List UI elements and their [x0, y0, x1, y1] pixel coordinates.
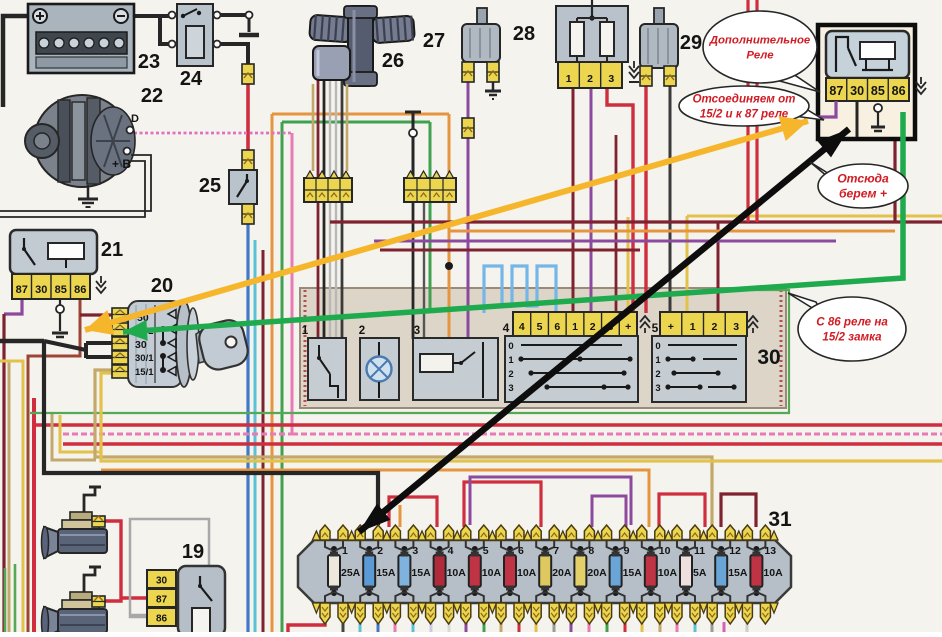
svg-text:86: 86 [892, 84, 906, 98]
fuse F10 10A [645, 555, 657, 587]
fuse F8 20A [574, 555, 586, 587]
switch table 5 in block 30 [652, 336, 746, 402]
svg-text:12: 12 [729, 545, 741, 557]
node junction on orange [445, 262, 453, 270]
sensor 29 [654, 8, 664, 24]
svg-text:10A: 10A [517, 567, 537, 579]
svg-text:15/2 замка: 15/2 замка [822, 331, 882, 344]
wire purple from 28 pin2 [590, 88, 593, 313]
svg-text:2: 2 [508, 369, 513, 380]
bottom pins of fuse block 31 [320, 603, 330, 624]
wire orange riser x449 [448, 114, 451, 340]
svg-text:11: 11 [694, 545, 705, 557]
relay 21 [10, 230, 97, 274]
highlight frame around additional relay [818, 25, 915, 139]
svg-text:3: 3 [733, 321, 739, 333]
wire coil bundle dark [341, 80, 344, 339]
svg-text:+: + [668, 321, 674, 333]
wire orange horizontal y114 [272, 113, 449, 116]
svg-text:2: 2 [587, 73, 593, 85]
wire dark red x616 [615, 135, 618, 313]
wire red horizontal y444 [63, 442, 942, 445]
battery 23 [28, 4, 134, 73]
resistor 3 in block 30 [413, 338, 498, 400]
connector [242, 150, 254, 170]
svg-text:5: 5 [537, 321, 543, 333]
wire green riser x430 [429, 122, 432, 313]
wire yellow from switch [101, 373, 942, 461]
wire dark red left edge [2, 314, 5, 632]
wire dark red horizontal y250 [380, 249, 640, 252]
wire dark red riser x718 [717, 222, 720, 313]
wire purple horizontal y241 [374, 240, 836, 243]
fuse F2 15A [363, 555, 375, 587]
svg-text:10A: 10A [658, 567, 678, 579]
connector strip [304, 178, 352, 202]
pins 87 30 85 86 of relay 21 [12, 274, 90, 299]
svg-text:28: 28 [513, 23, 535, 45]
wire orange stub above f3 [399, 505, 402, 527]
svg-text:15A: 15A [376, 567, 396, 579]
svg-text:С 86 реле на: С 86 реле на [816, 316, 888, 329]
wire blue from switch 25 down [246, 224, 249, 632]
key in switch 20 [196, 328, 210, 363]
svg-text:30: 30 [757, 346, 780, 369]
shield box of relay 19 [130, 519, 209, 617]
wire coil bundle gray 2 [335, 80, 337, 339]
wire red loop f10-f11 [659, 494, 705, 527]
svg-text:D: D [131, 113, 139, 125]
svg-text:1: 1 [342, 545, 348, 557]
ground symbol by additional relay [916, 82, 926, 88]
wire orange horizontal y231 [449, 230, 895, 233]
pins 30 87 86 of relay 19 [147, 570, 176, 588]
svg-text:Отсоединяем от: Отсоединяем от [692, 93, 795, 106]
switch 25 [229, 170, 257, 204]
wires below fuse block 31 [342, 622, 345, 632]
svg-text:3: 3 [608, 73, 614, 85]
svg-text:1: 1 [566, 73, 572, 85]
connector [487, 62, 499, 82]
svg-text:85: 85 [55, 284, 67, 296]
wire black from pin 30 [856, 101, 859, 137]
callout S 86 rele [788, 293, 822, 314]
connector [462, 118, 474, 138]
connector [242, 204, 254, 224]
svg-text:30: 30 [850, 84, 864, 98]
wire black battery feed left [3, 16, 40, 107]
fuse F12 15A [715, 555, 727, 587]
wire red 24-25 segment [246, 84, 250, 152]
wire yellow riser x687 [686, 216, 689, 313]
wire yellow riser x628 [627, 217, 630, 313]
connector [664, 66, 676, 86]
svg-text:15A: 15A [623, 567, 643, 579]
wire green thin loop [30, 290, 789, 413]
svg-text:6: 6 [554, 321, 560, 333]
svg-text:7: 7 [553, 545, 559, 557]
svg-text:8: 8 [588, 545, 594, 557]
sensor 27 [477, 8, 487, 24]
wire light blue loops [484, 266, 556, 313]
svg-text:30/1: 30/1 [135, 353, 154, 364]
wire black elbow to switch [44, 341, 86, 350]
svg-text:2: 2 [655, 369, 660, 380]
wire thin loop from +B [0, 155, 151, 211]
wire pink horizontal y434 [292, 433, 942, 436]
svg-text:86: 86 [74, 284, 86, 296]
wire red thick left riser x34 [32, 398, 36, 632]
svg-text:87: 87 [16, 284, 28, 296]
svg-text:10: 10 [659, 545, 671, 557]
fuse F11 5A [680, 555, 692, 587]
svg-text:4: 4 [503, 321, 510, 335]
svg-text:4: 4 [519, 321, 525, 333]
svg-text:87: 87 [156, 595, 168, 606]
svg-text:20A: 20A [587, 567, 607, 579]
wire red risers from top edge [746, 0, 749, 222]
svg-text:15A: 15A [411, 567, 431, 579]
fuse F3 15A [398, 555, 410, 587]
svg-text:1: 1 [690, 321, 696, 333]
fuse F13 10A [750, 555, 762, 587]
svg-text:5A: 5A [693, 567, 707, 579]
svg-text:5: 5 [652, 321, 659, 335]
wire dark red from relay21 pin86 [28, 299, 80, 632]
svg-text:1: 1 [655, 355, 661, 366]
wire red loop f2-f4 [389, 497, 437, 527]
contact diagram in switch 20 [162, 329, 164, 343]
wire purple from pin 87 [804, 101, 836, 117]
horn [84, 487, 95, 513]
wire red loop f4-f7 [464, 482, 541, 527]
svg-text:2: 2 [377, 545, 383, 557]
pins 87 30 85 86 of additional relay [826, 78, 909, 101]
wire purple loop wide [470, 477, 631, 525]
fuse F1 25A [328, 555, 340, 587]
wire purple from relay21 pin87 [4, 299, 22, 314]
fuse F7 20A [539, 555, 551, 587]
ignition coil 26 [309, 15, 353, 43]
yellow move-wire arrow [85, 121, 808, 330]
fuse F5 10A [469, 555, 481, 587]
svg-text:1: 1 [302, 325, 309, 337]
wire green riser x282 [281, 122, 284, 632]
svg-text:0: 0 [508, 341, 513, 352]
lamp 2 in block 30 [360, 338, 399, 400]
wire red from 28 pin3 [607, 88, 633, 313]
svg-text:10A: 10A [763, 567, 783, 579]
svg-text:4: 4 [448, 545, 454, 557]
green arrow from relay 86 to lock [123, 112, 903, 332]
wire purple riser x468 from 27 [467, 80, 470, 339]
switch table 4 in block 30 [505, 336, 638, 402]
svg-text:2: 2 [359, 325, 365, 337]
wire yellow left edge [0, 361, 23, 632]
connector strip [404, 178, 456, 202]
wire tan pair by coil bundle [312, 84, 315, 171]
wire yellow horizontal y216 [687, 215, 942, 218]
svg-text:20: 20 [151, 275, 173, 297]
black arrow fuse to relay [359, 129, 849, 532]
wire yellow corner x60 [60, 415, 101, 452]
svg-text:3: 3 [412, 545, 418, 557]
svg-text:3: 3 [508, 383, 513, 394]
svg-text:1: 1 [508, 355, 514, 366]
fuse F9 15A [610, 555, 622, 587]
wire coil bundle gray 1 [329, 80, 331, 339]
ground below 27 [492, 82, 495, 90]
wire pink from alternator D [134, 132, 292, 135]
fuse block 31 housing [298, 540, 791, 603]
svg-text:берем +: берем + [839, 187, 887, 201]
wire dark red loop f12-f13 [721, 494, 756, 527]
ground arrow by 28 [629, 66, 639, 72]
svg-text:22: 22 [141, 85, 163, 107]
svg-text:25A: 25A [341, 567, 361, 579]
wire dark red from 28 pin1 [572, 88, 575, 313]
node T-branch symbol [405, 111, 421, 114]
ground below terminal [239, 33, 259, 38]
wire orange riser x272 [271, 114, 274, 632]
svg-text:20A: 20A [552, 567, 572, 579]
svg-text:+: + [625, 321, 631, 333]
symbol by connector 4 [640, 316, 650, 322]
wire battery minus to relay 24 [126, 14, 169, 18]
contacts of switch 20 [112, 308, 128, 321]
svg-text:23: 23 [138, 51, 160, 73]
wire dark red bundle [262, 250, 265, 632]
ground symbol by relay 21 [96, 281, 106, 287]
svg-text:30: 30 [35, 284, 47, 296]
svg-text:15/2 и к 87 реле: 15/2 и к 87 реле [700, 108, 789, 121]
svg-text:85: 85 [871, 84, 885, 98]
ground below alternator [87, 185, 90, 198]
fuse F4 10A [434, 555, 446, 587]
svg-text:3: 3 [655, 383, 660, 394]
svg-text:6: 6 [518, 545, 524, 557]
svg-text:2: 2 [711, 321, 717, 333]
svg-text:30: 30 [156, 576, 168, 587]
symbol by connector 5 [748, 316, 758, 322]
svg-text:10A: 10A [482, 567, 502, 579]
wire dark from 29 right [669, 86, 672, 313]
svg-text:24: 24 [180, 68, 203, 90]
svg-text:87: 87 [829, 84, 843, 98]
sub-relay 1 in block 30 [308, 338, 346, 400]
svg-text:Реле: Реле [746, 50, 774, 62]
svg-text:1: 1 [572, 321, 578, 333]
terminal stub below pin 85 [59, 299, 61, 305]
svg-text:31: 31 [768, 508, 792, 531]
connector [640, 66, 652, 86]
svg-text:25: 25 [199, 175, 221, 197]
relay 19 body [178, 566, 225, 636]
svg-text:Отсюда: Отсюда [837, 172, 889, 186]
svg-text:30: 30 [135, 339, 147, 351]
svg-text:0: 0 [655, 341, 660, 352]
wire red horn feed [105, 521, 121, 601]
relay 24 [177, 4, 213, 66]
wire orange horizontal y470 [101, 470, 649, 527]
callout Otsoedinyaem [794, 104, 824, 120]
svg-text:Дополнительное: Дополнительное [709, 35, 811, 47]
wire black thick circuit [0, 339, 44, 344]
wire tan left riser x9 [8, 360, 11, 632]
terminal below pin 85 [874, 104, 882, 112]
svg-text:15A: 15A [728, 567, 748, 579]
wire red from 29 left [644, 86, 647, 313]
svg-text:5: 5 [483, 545, 489, 557]
wire red fuse1 feed [288, 620, 325, 632]
resistor block 28 [556, 6, 628, 62]
callout Dopolnitelnoe Rele [776, 72, 820, 92]
svg-text:21: 21 [101, 239, 123, 261]
wire relay 24 to terminal [221, 13, 247, 17]
svg-text:2: 2 [590, 321, 596, 333]
wire brown drop from relay pin 86 [893, 101, 896, 222]
horn [84, 567, 95, 593]
svg-text:13: 13 [764, 545, 776, 557]
wire coil bundle dark red [317, 80, 320, 339]
additional relay body [826, 31, 909, 78]
svg-text:29: 29 [680, 32, 702, 54]
wire dark red horizontal y222 [330, 220, 942, 223]
svg-text:27: 27 [423, 30, 445, 52]
top pins of fuse block 31 [320, 525, 330, 540]
wire tan from switch 15/1 [95, 370, 712, 527]
svg-text:+ B: + B [112, 157, 131, 171]
wire pink riser x292 [291, 133, 294, 434]
wire relay 24 lower to switch 25 [221, 44, 248, 64]
fuse F6 10A [504, 555, 516, 587]
svg-text:19: 19 [182, 541, 204, 563]
svg-text:26: 26 [382, 50, 404, 72]
svg-text:15/1: 15/1 [135, 367, 154, 378]
wire tan corner x52 [52, 412, 96, 460]
relay/connector block 30 housing [300, 288, 786, 408]
wire purple loop f9-f10 [592, 496, 626, 527]
svg-text:86: 86 [156, 614, 168, 625]
connector [462, 62, 474, 82]
wire cyan bundle [254, 240, 257, 632]
svg-text:3: 3 [414, 325, 420, 337]
wire green short risers bottom left [4, 568, 7, 632]
wire green horizontal y122 [282, 121, 430, 124]
alternator 22 [34, 95, 130, 187]
connector [242, 64, 254, 84]
wire black below strip S2 [412, 202, 415, 339]
connector strip 28 [558, 62, 622, 88]
ignition switch 20 [128, 301, 182, 387]
wire coil bundle black [323, 80, 326, 339]
svg-text:10A: 10A [447, 567, 467, 579]
callout Otsyuda berem plus [810, 162, 834, 182]
svg-text:9: 9 [624, 545, 630, 557]
